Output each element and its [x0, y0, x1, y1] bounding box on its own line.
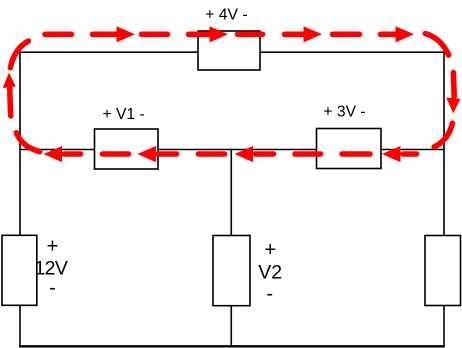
svg-text:-: -	[49, 277, 56, 299]
KVL loop: left side up arrow	[3, 73, 16, 117]
KVL loop: middle run arrow 1	[44, 146, 81, 162]
KVL loop: middle run dash 2	[199, 151, 225, 157]
KVL loop: bottom-right corner arc dash	[434, 123, 452, 147]
KVL loop: middle run dash 1	[103, 151, 129, 157]
KVL loop: top run arrow 4	[381, 26, 415, 42]
KVL loop: top run dash 2	[142, 31, 168, 37]
svg-text:12V: 12V	[34, 257, 67, 279]
wire: left vertical (top node to 12V source)	[19, 51, 21, 235]
element: right box	[425, 236, 461, 306]
wire: right bottom stem (right element to bottom rail)	[443, 306, 445, 347]
KVL loop: top run dash 1	[45, 31, 72, 37]
wire: middle rail left segment	[19, 149, 94, 151]
element V2 box	[213, 236, 250, 306]
element 12V source box	[2, 235, 37, 305]
wire: left bottom stem (12V source to bottom rail)	[19, 305, 21, 347]
wire: middle rail center segment	[158, 149, 317, 151]
svg-text:-: -	[266, 283, 273, 305]
KVL loop: top run arrow 3	[285, 26, 323, 42]
KVL loop: bottom-left corner arc dash	[16, 133, 39, 152]
KVL loop: top-right corner arc dash	[425, 34, 448, 56]
wire: bottom rail	[19, 345, 445, 347]
wire: top-right horizontal segment	[260, 51, 445, 53]
KVL loop: middle run arrow 2	[137, 146, 176, 162]
wire: V2 stem from middle rail	[230, 149, 232, 236]
element 4V source box	[198, 31, 260, 70]
element V1 box	[95, 129, 159, 169]
svg-text:+ 4V -: + 4V -	[205, 6, 247, 23]
KVL loop: middle run dash 4	[342, 151, 370, 157]
KVL loop: middle run arrow 3	[235, 146, 274, 162]
svg-text:+: +	[264, 239, 276, 261]
wire: top-left horizontal segment	[19, 51, 198, 53]
svg-text:+: +	[47, 236, 59, 258]
wire: V2 bottom stem to bottom rail	[230, 306, 232, 347]
svg-text:+ V1 -: + V1 -	[102, 106, 144, 123]
wire: right vertical (top node to right element)	[443, 51, 445, 235]
svg-text:+ 3V -: + 3V -	[323, 104, 365, 121]
KVL loop: right side down arrow	[446, 73, 460, 114]
svg-text:V2: V2	[258, 261, 282, 283]
KVL loop: top-left corner arc dash	[10, 41, 28, 68]
KVL loop: top run arrow 2	[189, 26, 229, 42]
element 3V box	[317, 129, 382, 169]
KVL loop: middle run dash 3	[295, 151, 321, 157]
KVL loop: middle run arrow 4	[382, 146, 417, 162]
KVL loop: top run dash 4	[333, 31, 360, 37]
KVL loop: top run dash 3	[238, 31, 263, 37]
wire: middle rail right segment	[381, 149, 445, 151]
KVL loop: top run arrow 1	[93, 26, 136, 42]
